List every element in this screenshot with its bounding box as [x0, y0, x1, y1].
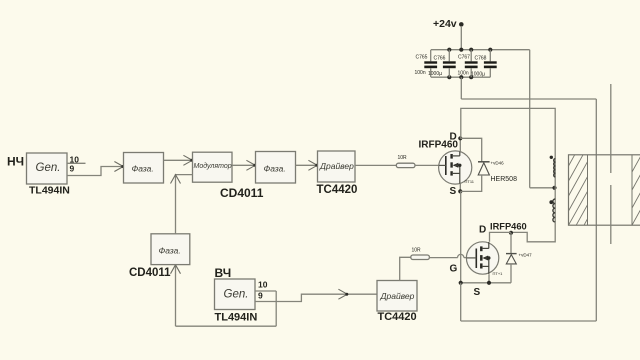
svg-text:1000µ: 1000µ [471, 72, 485, 78]
transistor VT2 IRFP460 (lower MOSFET) [466, 242, 503, 276]
wire U1 pin9 to phase1 [67, 167, 123, 176]
secondary lead upper [610, 84, 612, 173]
svg-text:НЧ: НЧ [7, 155, 24, 169]
svg-text:Gen.: Gen. [224, 289, 249, 301]
bottom rail of capacitor bank [431, 76, 490, 78]
svg-text:10: 10 [258, 280, 268, 290]
wire gate2 after hop [464, 257, 467, 259]
svg-text:9: 9 [258, 291, 263, 301]
wire return bus right leg down [595, 99, 597, 321]
svg-text:+vD47: +vD47 [519, 253, 533, 258]
wire D1 node to diode VD46 [460, 138, 481, 161]
wire R1 to gate of VT1 [415, 164, 439, 166]
arrow into driver1 input [308, 160, 318, 170]
secondary lead lower [610, 185, 612, 244]
wire drain1 to primary top [461, 108, 555, 158]
node S1 junction [458, 189, 462, 193]
svg-text:S: S [450, 186, 457, 197]
capacitor C768 1000µ [471, 50, 497, 78]
wire modulator out to phase2 [232, 164, 255, 166]
wire S rail down to bottom return [460, 283, 462, 321]
driver block A4 (Драйвер TC4420) [318, 151, 356, 182]
phase block A1 (Фаза) [124, 153, 164, 184]
svg-text:C767: C767 [458, 55, 470, 61]
svg-text:D: D [479, 225, 486, 236]
capacitor C765 100n [415, 50, 438, 77]
phase block A3 (Фаза) [256, 152, 296, 184]
wire bottom rail down to return bus [460, 77, 462, 99]
svg-text:CD4011: CD4011 [220, 186, 264, 200]
node source2 [487, 281, 491, 285]
svg-text:100n: 100n [458, 71, 469, 77]
junction dots top rail [447, 48, 492, 52]
source lead wire VT1 [459, 184, 461, 192]
node center tap junction [552, 186, 556, 190]
svg-text:Фаза.: Фаза. [264, 163, 286, 173]
svg-text:1000µ: 1000µ [428, 71, 442, 77]
transformer core (hatched) [569, 155, 640, 225]
node D2 junction [509, 231, 513, 235]
wire center tap to primary W2 [554, 188, 556, 199]
wire primary W2 bottom to drain2 node [511, 222, 555, 242]
wire phase1 out to modulator [164, 159, 193, 161]
svg-text:ВЧ: ВЧ [215, 266, 232, 280]
wire center tap horizontal [530, 187, 555, 189]
svg-text:Gen.: Gen. [36, 162, 61, 174]
wire top rail to center tap leg [529, 50, 531, 188]
wire diode VD46 to S1 node [460, 175, 481, 191]
node S rail left [459, 281, 463, 285]
wire diode VD47 to source rail [510, 264, 512, 283]
arrow into phase1 input [114, 162, 124, 172]
svg-text:Фаза.: Фаза. [159, 246, 181, 256]
svg-text:G: G [450, 264, 458, 275]
capacitor C767 100n [458, 50, 478, 77]
wire driver1 out to R1 [355, 164, 396, 166]
arrow mid-wire to driver2 [338, 289, 348, 299]
svg-text:Фаза.: Фаза. [132, 163, 154, 173]
svg-text:C766: C766 [434, 56, 446, 62]
svg-text:TL494IN: TL494IN [215, 312, 258, 324]
wire driver2 output to R2 [400, 257, 411, 280]
source rail of both FETs [461, 282, 511, 284]
wire phase2 out to driver1 [296, 164, 318, 166]
feedback left leg up to phase3 [175, 265, 177, 326]
arrow up at modulator bottom input [171, 175, 181, 184]
arrow into phase2 input [246, 160, 256, 170]
source lead wire VT2 [488, 274, 490, 283]
capacitor C766 1000µ [428, 50, 456, 77]
arrow into phase3 bottom [171, 265, 181, 274]
svg-text:D: D [450, 132, 457, 143]
wire phase3 top to modulator bottom input [176, 175, 193, 234]
wire U2 pin9 to driver2 [255, 294, 377, 301]
top rail of capacitor bank [431, 49, 530, 51]
diode VD46 HER508 [478, 162, 490, 175]
pin 10 stub wire (U1) [67, 162, 86, 164]
svg-text:+24v: +24v [433, 18, 457, 30]
svg-text:Драйвер: Драйвер [319, 161, 354, 171]
primary winding W1 [550, 156, 556, 188]
wire bottom return rail [461, 320, 597, 322]
svg-text:100n: 100n [415, 70, 426, 76]
svg-text:Модулятор: Модулятор [194, 162, 232, 170]
modulator block A2 (Модулятор) [193, 152, 233, 182]
svg-text:CD4011: CD4011 [129, 267, 171, 279]
+24v supply terminal [433, 18, 464, 30]
svg-text:+vD46: +vD46 [491, 161, 505, 166]
diode VD47 leads [510, 233, 512, 253]
wire S1 down the left return leg [460, 191, 462, 282]
svg-text:10R: 10R [398, 155, 408, 161]
node D1 junction [458, 136, 462, 140]
wire +24v down to top rail [460, 26, 462, 50]
transistor VT1 IRFP460 (upper MOSFET) [439, 151, 475, 184]
svg-text:9: 9 [70, 164, 75, 174]
svg-text:IRFP460: IRFP460 [490, 222, 527, 232]
resistor R1 10R [396, 155, 415, 168]
driver block A5 (Драйвер TC4420) [377, 281, 417, 312]
phase block A6 (Фаза) [151, 234, 190, 265]
diode VD47 [506, 254, 517, 264]
svg-text:HER508: HER508 [491, 176, 518, 183]
drain lead wire VT1 [459, 138, 461, 151]
feedback: pin10 U2 down [275, 291, 277, 326]
svg-text:TL494IN: TL494IN [29, 185, 70, 197]
arrow into modulator input 1 [183, 155, 193, 165]
junction dots bottom rail [447, 75, 473, 79]
svg-text:10R: 10R [412, 248, 422, 254]
svg-text:C768: C768 [475, 56, 487, 62]
pin 10 stub wire (U2) [255, 290, 276, 292]
svg-text:TC4420: TC4420 [317, 184, 358, 196]
primary winding W2 [549, 199, 555, 222]
feedback bottom wire [176, 325, 277, 327]
svg-text:C765: C765 [416, 55, 428, 61]
wire hop over gate2 [458, 254, 464, 257]
svg-text:Драйвер: Драйвер [380, 291, 415, 301]
svg-text:S: S [474, 287, 481, 298]
generator U2 box (ВЧ Gen TL494IN) [215, 279, 256, 310]
svg-text:TC4420: TC4420 [378, 311, 417, 323]
wire D2 node to VT2 drain [490, 232, 512, 241]
generator U1 box (НЧ Gen TL494IN) [27, 153, 68, 184]
resistor R2 10R [411, 248, 430, 260]
svg-text:ПТ+1: ПТ+1 [493, 271, 504, 276]
wire R2 to gate of VT2 [429, 257, 457, 259]
svg-text:ПТ11: ПТ11 [465, 179, 475, 184]
wire return bus horizontal [461, 98, 596, 100]
